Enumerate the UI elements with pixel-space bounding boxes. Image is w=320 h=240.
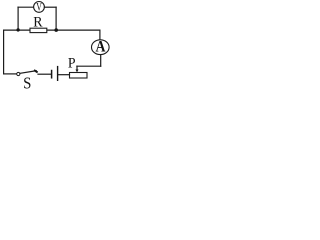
- node junction right of R: [54, 28, 58, 32]
- wire battery to rheostat box: [59, 74, 70, 76]
- svg-text:R: R: [33, 14, 43, 31]
- voltmeter V circle: [34, 2, 45, 13]
- resistor R box: [30, 28, 47, 32]
- wire resistor branch horizontal: [4, 29, 100, 31]
- svg-text:P: P: [68, 55, 76, 72]
- wire switch to battery: [38, 73, 51, 75]
- switch blade tip contact: [35, 71, 37, 72]
- svg-text:S: S: [23, 75, 31, 92]
- battery long plate: [57, 67, 59, 81]
- wire left main vertical: [3, 30, 5, 74]
- battery short plate: [51, 71, 53, 78]
- wire ammeter bottom vertical: [100, 55, 102, 67]
- rheostat P box: [70, 73, 88, 79]
- wire voltmeter loop right vertical: [55, 7, 57, 30]
- wire right vertical down to ammeter: [99, 30, 101, 40]
- switch S blade: [20, 71, 36, 74]
- svg-text:V: V: [36, 1, 42, 14]
- wire rheostat slider arm: [77, 65, 101, 67]
- svg-text:A: A: [96, 39, 106, 56]
- wire voltmeter to top-right corner: [44, 6, 56, 8]
- node junction left of R: [16, 28, 19, 31]
- ammeter A ellipse: [92, 40, 110, 55]
- switch S pivot circle: [17, 72, 20, 75]
- wire bottom-left horizontal: [4, 73, 17, 75]
- wire top-left horizontal to voltmeter: [18, 6, 34, 8]
- rheostat wiper arrow: [76, 66, 78, 70]
- wire voltmeter loop left vertical: [17, 7, 19, 30]
